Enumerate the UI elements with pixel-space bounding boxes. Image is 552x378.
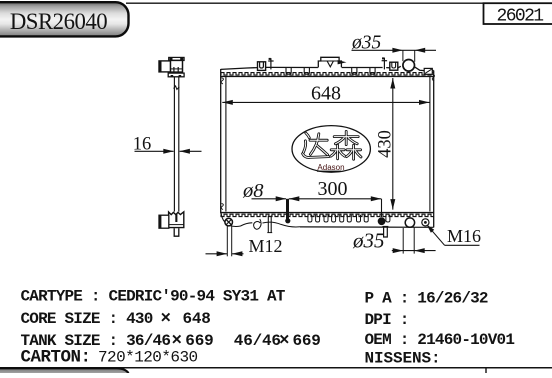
top right corner clip: [424, 68, 432, 74]
bottom tank bottom line: [300, 226, 434, 228]
left wall top squiggle: [221, 78, 223, 84]
model label plate DSR26040: [0, 2, 129, 36]
dimension phi8 line: [252, 198, 287, 200]
side view neck flange: [168, 73, 184, 77]
radiator right wall inner: [429, 77, 431, 212]
bottom tank crimp tabs: [308, 215, 312, 222]
code box 26021: [484, 3, 552, 24]
svg-text:CARTYPE : CEDRIC'90-94 SY31 AT: CARTYPE : CEDRIC'90-94 SY31 AT: [21, 288, 286, 306]
svg-text:ø35: ø35: [352, 229, 385, 253]
overflow arrow: [338, 60, 347, 64]
phi35 bottom extension lines: [402, 228, 404, 254]
filler neck circle: [403, 60, 415, 72]
drain boss circle: [422, 219, 429, 226]
bottom joint crenellation: [221, 214, 434, 216]
svg-text:648: 648: [183, 310, 211, 328]
tube break mark: [174, 86, 180, 90]
side view tube right wall: [178, 77, 180, 212]
dimension 16 line right: [180, 150, 202, 152]
dimension phi35 bottom line: [392, 250, 436, 252]
left wall bottom squiggle: [221, 203, 223, 209]
outlet port circle: [405, 218, 414, 227]
side view drain stem: [174, 228, 179, 236]
mount bracket left: [258, 62, 266, 71]
svg-text:P A : 16/26/32: P A : 16/26/32: [365, 290, 488, 308]
svg-text:M12: M12: [249, 236, 283, 256]
top border line: [126, 2, 552, 4]
radiator left wall inner: [225, 77, 227, 212]
logo underline: [317, 170, 341, 172]
side view tube left wall: [173, 77, 175, 212]
M12 extension lines: [226, 226, 228, 256]
side view left reservoir box: [159, 61, 170, 72]
svg-text:M16: M16: [447, 226, 481, 246]
drain plug circle M12: [225, 218, 233, 226]
side view bottom tank body: [169, 212, 184, 228]
side view filler neck body: [170, 60, 182, 72]
radiator right wall outer: [433, 71, 435, 228]
top joint crenellation: [221, 73, 434, 75]
svg-text:DPI :: DPI :: [365, 311, 409, 329]
svg-text:×: ×: [161, 309, 172, 329]
dimension 16 line left: [135, 150, 174, 152]
top joint line: [221, 75, 434, 77]
dimension 648 line: [222, 101, 429, 103]
bottom vertical divider: [485, 368, 487, 373]
top tank outline: [221, 66, 434, 70]
M16 leader: [427, 225, 444, 245]
svg-text:669: 669: [185, 332, 213, 350]
side view top cap bar: [169, 57, 184, 60]
svg-text:46/46: 46/46: [234, 332, 281, 350]
next label plate top sliver: [0, 368, 129, 378]
small outlet sticks: [267, 216, 269, 233]
svg-text:300: 300: [318, 178, 348, 200]
svg-text:720*120*630: 720*120*630: [98, 349, 198, 367]
dimension 300 line: [289, 198, 382, 200]
svg-text:CORE SIZE : 430: CORE SIZE : 430: [21, 310, 153, 328]
phi35 top extension lines: [402, 50, 404, 61]
svg-text:CARTON:: CARTON:: [21, 348, 91, 368]
bottom tank left sketchy outline: [221, 212, 252, 227]
svg-text:669: 669: [293, 332, 321, 350]
filler cap: [318, 57, 341, 67]
bleed pin right: [383, 58, 385, 70]
bottom separator line: [0, 367, 552, 369]
bottom joint line: [221, 212, 434, 214]
svg-text:DSR26040: DSR26040: [10, 9, 107, 34]
radiator left wall outer: [220, 69, 222, 214]
top tank clips: [286, 68, 291, 74]
side view bottom left box: [159, 215, 169, 228]
drain curl: [254, 219, 261, 229]
svg-text:26021: 26021: [497, 7, 544, 27]
mount bracket right: [390, 62, 398, 70]
svg-text:648: 648: [311, 82, 341, 104]
dimension phi35 top line: [352, 49, 437, 51]
phi8 bold leader: [286, 199, 289, 222]
logo characters da-sen outline: [303, 131, 361, 159]
bottom bolt fitting: [378, 217, 386, 225]
dimension M12 line: [206, 253, 228, 255]
svg-text:OEM : 21460-10V01: OEM : 21460-10V01: [365, 331, 515, 349]
bleed pin left: [270, 58, 272, 69]
logo oval: [292, 126, 370, 173]
right wall top squiggle: [432, 74, 434, 81]
svg-text:×: ×: [279, 331, 290, 351]
svg-text:430: 430: [376, 130, 396, 158]
dimension 430 line: [392, 78, 394, 210]
svg-text:NISSENS:: NISSENS:: [365, 350, 441, 368]
svg-text:Adason: Adason: [317, 163, 344, 172]
300 right extension line: [381, 199, 383, 217]
